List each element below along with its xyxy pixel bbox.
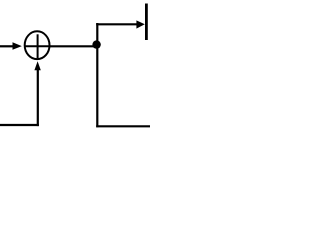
- block left-edge bar (cropped block): [145, 4, 148, 41]
- wire: input from left edge: [0, 45, 14, 47]
- wire: feedback along bottom from left edge: [0, 124, 39, 126]
- plus sign horizontal bar: [25, 45, 49, 47]
- wire: summer output to junction node: [50, 45, 94, 47]
- wire: node down to bottom corner: [96, 46, 98, 127]
- arrowhead: into block at right: [136, 20, 144, 28]
- arrowhead: feedback up into summing junction: [34, 61, 40, 70]
- plus sign vertical bar: [37, 34, 39, 58]
- junction node dot: [92, 40, 100, 48]
- wire: node up to top corner: [96, 23, 98, 44]
- wire: feedback up leg: [37, 70, 39, 127]
- arrowhead: input into summing junction: [13, 42, 22, 50]
- wire: top corner right to arrow: [96, 23, 137, 25]
- wire: bottom corner right to edge (output): [96, 125, 150, 127]
- summing junction circle: [25, 31, 50, 59]
